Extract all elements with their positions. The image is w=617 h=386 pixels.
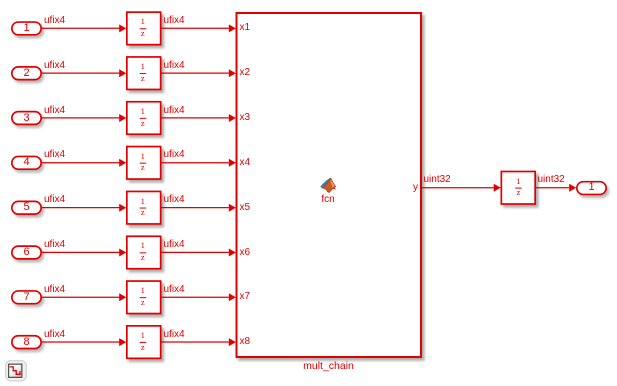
signal label uint32 (output delay wire) <box>538 174 565 185</box>
inport 2 (stadium shape) <box>12 67 41 80</box>
arrowhead into mult_chain port x3 <box>229 114 236 122</box>
signal label uint32 (mult_chain output wire) <box>424 174 451 185</box>
arrowhead into mult_chain port x6 <box>229 249 236 257</box>
wire unit delay row 5 to mult_chain port x5 <box>161 207 229 209</box>
unit delay block row 2 <box>127 57 161 89</box>
unit delay denominator z row 3 <box>125 119 161 128</box>
fraction bar of 1/z row 6 <box>140 252 147 254</box>
inport 4 (stadium shape) <box>12 156 41 169</box>
arrowhead into mult_chain port x2 <box>229 69 236 77</box>
label fcn <box>318 194 338 205</box>
unit delay block row 4 <box>127 147 161 180</box>
outport 1 (stadium shape) <box>577 182 606 195</box>
unit delay numerator 1 row 6 <box>125 241 161 250</box>
unit delay denominator z row 1 <box>125 29 161 38</box>
wire inport 1 to unit delay <box>42 27 120 29</box>
wire unit delay row 1 to mult_chain port x1 <box>161 27 229 29</box>
port label x2 <box>240 67 251 78</box>
signal label ufix4 (inport 2 wire) <box>44 60 65 71</box>
signal label ufix4 (inport 1 wire) <box>44 15 65 26</box>
inport 8 (stadium shape) <box>12 336 41 349</box>
arrowhead into mult_chain port x8 <box>229 338 236 346</box>
inport 3 (stadium shape) <box>12 112 41 125</box>
fraction bar of 1/z row 4 <box>140 162 147 164</box>
unit delay block row 6 <box>127 236 161 269</box>
port number label 1 <box>11 21 42 36</box>
port number label 4 <box>11 155 42 170</box>
fraction bar of 1/z row 1 <box>140 28 147 30</box>
unit delay numerator 1 row 2 <box>125 62 161 71</box>
unit delay denominator z row 2 <box>125 74 161 83</box>
unit delay numerator 1 row 8 <box>125 331 161 340</box>
wire unit delay row 6 to mult_chain port x6 <box>161 251 229 253</box>
block name label mult_chain <box>279 361 379 372</box>
arrowhead into unit delay row 1 <box>119 24 126 32</box>
unit delay block row 3 <box>127 102 161 135</box>
signal label ufix4 (delay 4 output wire) <box>164 149 185 160</box>
output unit delay denominator z <box>501 188 537 197</box>
arrowhead into unit delay row 8 <box>119 338 126 346</box>
unit delay denominator z row 7 <box>125 298 161 307</box>
unit delay numerator 1 row 1 <box>125 17 161 26</box>
port number label 6 <box>11 245 42 260</box>
arrowhead into mult_chain port x1 <box>229 24 236 32</box>
fraction bar of output 1/z <box>515 187 522 189</box>
signal label ufix4 (delay 5 output wire) <box>164 194 185 205</box>
inport 7 (stadium shape) <box>12 291 41 304</box>
sample time legend button <box>6 361 27 381</box>
arrowhead into mult_chain port x4 <box>229 159 236 167</box>
signal label ufix4 (delay 8 output wire) <box>164 329 185 340</box>
port number label 2 <box>11 66 42 81</box>
signal label ufix4 (inport 7 wire) <box>44 284 65 295</box>
wire output unit delay to outport <box>536 187 570 189</box>
signal label ufix4 (delay 2 output wire) <box>164 60 185 71</box>
unit delay block (output) <box>501 172 535 205</box>
arrowhead into unit delay row 4 <box>119 159 126 167</box>
port number label of outport 1 <box>576 180 607 195</box>
wire mult_chain y to output unit delay <box>421 187 494 189</box>
arrowhead into unit delay row 7 <box>119 293 126 301</box>
signal label ufix4 (delay 1 output wire) <box>164 15 185 26</box>
port label x7 <box>240 291 251 302</box>
arrowhead into unit delay row 2 <box>119 69 126 77</box>
arrowhead into unit delay row 3 <box>119 114 126 122</box>
port label x1 <box>240 22 251 33</box>
wire inport 3 to unit delay <box>42 117 120 119</box>
signal label ufix4 (inport 4 wire) <box>44 149 65 160</box>
unit delay block row 7 <box>127 281 161 314</box>
arrowhead into mult_chain port x7 <box>229 293 236 301</box>
port number label 5 <box>11 200 42 215</box>
inport 1 (stadium shape) <box>12 22 41 35</box>
arrowhead into mult_chain port x5 <box>229 204 236 212</box>
fraction bar of 1/z row 7 <box>140 297 147 299</box>
unit delay denominator z row 4 <box>125 163 161 172</box>
signal label ufix4 (delay 3 output wire) <box>164 105 185 116</box>
port label x4 <box>240 157 251 168</box>
wire inport 5 to unit delay <box>42 207 120 209</box>
sample time staircase polyline <box>10 367 20 374</box>
sample time staircase icon box <box>0 0 1 1</box>
signal label ufix4 (inport 6 wire) <box>44 239 65 250</box>
arrowhead into unit delay row 6 <box>119 249 126 257</box>
output unit delay numerator 1 <box>501 177 537 186</box>
wire unit delay row 3 to mult_chain port x3 <box>161 117 229 119</box>
unit delay block row 1 <box>127 12 161 45</box>
signal label ufix4 (delay 6 output wire) <box>164 239 185 250</box>
fraction bar of 1/z row 5 <box>140 207 147 209</box>
unit delay block row 5 <box>127 191 161 224</box>
port label x5 <box>240 202 251 213</box>
wire unit delay row 2 to mult_chain port x2 <box>161 72 229 74</box>
port label y <box>408 182 418 193</box>
wire inport 8 to unit delay <box>42 341 120 343</box>
arrowhead into output unit delay <box>494 184 501 192</box>
signal label ufix4 (inport 5 wire) <box>44 194 65 205</box>
port number label 8 <box>11 335 42 350</box>
wire unit delay row 7 to mult_chain port x7 <box>161 296 229 298</box>
port label x3 <box>240 112 251 123</box>
unit delay numerator 1 row 7 <box>125 286 161 295</box>
unit delay numerator 1 row 3 <box>125 107 161 116</box>
unit delay numerator 1 row 4 <box>125 152 161 161</box>
signal label ufix4 (inport 8 wire) <box>44 329 65 340</box>
wire unit delay row 4 to mult_chain port x4 <box>161 162 229 164</box>
arrowhead into outport <box>569 184 576 192</box>
port number label 3 <box>11 111 42 126</box>
unit delay numerator 1 row 5 <box>125 197 161 206</box>
wire inport 6 to unit delay <box>42 251 120 253</box>
port label x6 <box>240 247 251 258</box>
unit delay denominator z row 5 <box>125 208 161 217</box>
unit delay denominator z row 6 <box>125 253 161 262</box>
inport 5 (stadium shape) <box>12 201 41 214</box>
signal label ufix4 (inport 3 wire) <box>44 105 65 116</box>
wire inport 7 to unit delay <box>42 296 120 298</box>
port label x8 <box>240 336 251 347</box>
fraction bar of 1/z row 3 <box>140 117 147 119</box>
unit delay block row 8 <box>127 326 161 359</box>
wire inport 2 to unit delay <box>42 72 120 74</box>
port number label 7 <box>11 290 42 305</box>
wire unit delay row 8 to mult_chain port x8 <box>161 341 229 343</box>
arrowhead into unit delay row 5 <box>119 204 126 212</box>
unit delay denominator z row 8 <box>125 343 161 352</box>
inport 6 (stadium shape) <box>12 246 41 259</box>
MATLAB function icon (logo) <box>321 178 336 193</box>
wire inport 4 to unit delay <box>42 162 120 164</box>
fraction bar of 1/z row 2 <box>140 73 147 75</box>
fraction bar of 1/z row 8 <box>140 341 147 343</box>
signal label ufix4 (delay 7 output wire) <box>164 284 185 295</box>
subsystem block mult_chain (MATLAB Function) <box>237 13 422 357</box>
